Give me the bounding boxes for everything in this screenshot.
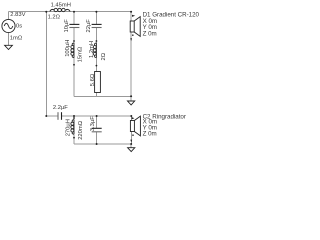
svg-text:1.2mH: 1.2mH bbox=[89, 41, 95, 58]
svg-text:220mΩ: 220mΩ bbox=[78, 120, 84, 140]
svg-text:5.6Ω: 5.6Ω bbox=[90, 73, 96, 86]
svg-text:2.2µF: 2.2µF bbox=[53, 105, 68, 111]
svg-text:0s: 0s bbox=[16, 24, 22, 30]
svg-text:10µF: 10µF bbox=[64, 19, 70, 33]
svg-text:270µH: 270µH bbox=[66, 119, 72, 136]
svg-text:1.2Ω: 1.2Ω bbox=[48, 15, 61, 21]
svg-text:22µF: 22µF bbox=[86, 19, 92, 33]
svg-text:2.83V: 2.83V bbox=[10, 12, 25, 18]
svg-text:100µH: 100µH bbox=[65, 40, 71, 57]
svg-text:Z 0m: Z 0m bbox=[143, 131, 157, 138]
svg-text:3.3µF: 3.3µF bbox=[90, 116, 96, 131]
svg-text:2Ω: 2Ω bbox=[101, 52, 107, 60]
svg-text:Z 0m: Z 0m bbox=[143, 30, 157, 37]
svg-text:1mΩ: 1mΩ bbox=[10, 35, 23, 41]
svg-text:15mΩ: 15mΩ bbox=[78, 46, 84, 62]
svg-text:1.45mH: 1.45mH bbox=[51, 2, 71, 8]
